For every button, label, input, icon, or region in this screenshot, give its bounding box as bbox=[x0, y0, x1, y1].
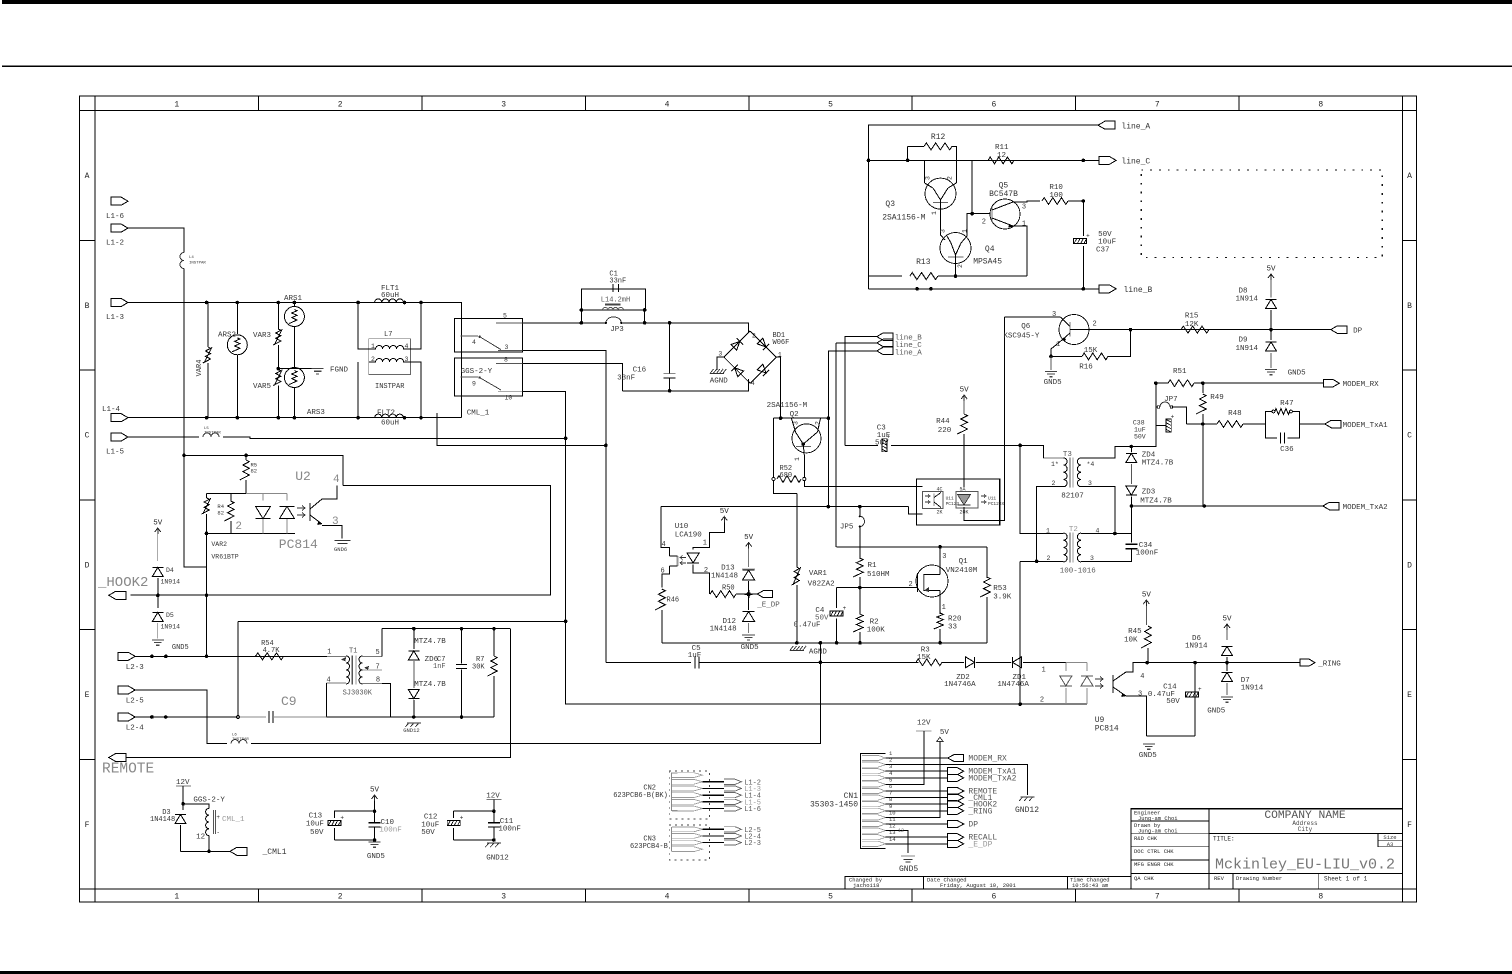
svg-text:3: 3 bbox=[942, 553, 946, 561]
zener ZD2 1N4746A bbox=[965, 657, 974, 668]
wire Q2 collector node up to line_A bbox=[828, 351, 876, 418]
relay K2 switch arm bbox=[480, 378, 501, 390]
svg-text:2: 2 bbox=[338, 101, 343, 110]
svg-text:VAR3: VAR3 bbox=[253, 332, 272, 340]
svg-text:L2-5: L2-5 bbox=[126, 698, 145, 706]
svg-text:3: 3 bbox=[1022, 204, 1026, 212]
svg-text:DP: DP bbox=[1353, 328, 1363, 336]
svg-text:100nF: 100nF bbox=[498, 826, 521, 834]
connector CN2 623PCB6-B(BK) bbox=[669, 771, 709, 819]
wire Q5 collector to R10 bbox=[1013, 201, 1040, 202]
connector L1-3 bbox=[111, 299, 128, 307]
ground GND5 C10 bbox=[369, 841, 381, 843]
resistor R16 15K bbox=[1082, 353, 1108, 360]
wire relay pin10 down bbox=[523, 392, 1088, 705]
connector L2-3 bbox=[118, 652, 135, 660]
svg-text:50V: 50V bbox=[1134, 434, 1146, 441]
svg-text:VAR4: VAR4 bbox=[196, 360, 204, 377]
wire ring node bottom bbox=[1146, 735, 1195, 737]
svg-text:3: 3 bbox=[332, 516, 339, 528]
svg-text:KSC945-Y: KSC945-Y bbox=[1003, 333, 1040, 341]
svg-text:R50: R50 bbox=[722, 585, 735, 593]
svg-text:3: 3 bbox=[505, 344, 509, 351]
junction E_DP node bbox=[746, 592, 750, 596]
svg-text:L1-5: L1-5 bbox=[106, 449, 125, 457]
svg-text:FLT2: FLT2 bbox=[377, 410, 395, 418]
wire TxA1 row to ZD4 bbox=[1131, 426, 1156, 447]
svg-text:5: 5 bbox=[503, 313, 507, 320]
svg-text:D13: D13 bbox=[721, 565, 735, 573]
svg-text:1: 1 bbox=[1042, 667, 1046, 675]
transistor Q3 2SA1156-M bbox=[925, 178, 956, 209]
U10 photosensor bar bbox=[676, 556, 678, 566]
svg-text:1N914: 1N914 bbox=[161, 624, 181, 631]
svg-text:C36: C36 bbox=[1280, 446, 1294, 454]
svg-text:50V: 50V bbox=[1166, 698, 1180, 706]
svg-text:C: C bbox=[1407, 432, 1412, 441]
changed-by row bbox=[845, 876, 1131, 889]
capacitor C4 0.47uF 50V bbox=[830, 611, 843, 616]
svg-text:5A: 5A bbox=[960, 487, 966, 493]
svg-text:INSTPAR: INSTPAR bbox=[232, 738, 249, 742]
svg-text:15K: 15K bbox=[1084, 347, 1098, 355]
svg-text:+: + bbox=[843, 605, 847, 612]
svg-text:REMOTE: REMOTE bbox=[102, 762, 154, 778]
svg-text:12: 12 bbox=[898, 828, 904, 834]
wire T1 pin4 down to C9 row bbox=[326, 683, 328, 717]
wire L1-3 rail bbox=[128, 303, 462, 418]
header rule bbox=[2, 66, 1512, 67]
svg-text:_E_DP: _E_DP bbox=[967, 840, 992, 849]
opto U9 transistor bbox=[1112, 675, 1114, 693]
svg-text:+: + bbox=[1171, 414, 1175, 421]
zener ZD3 MTZ4.7B bbox=[1126, 486, 1137, 495]
relay K1 switch arm bbox=[480, 337, 501, 350]
svg-text:1nF: 1nF bbox=[433, 663, 446, 671]
wire L2-3 bbox=[135, 655, 327, 657]
varistor VAR2 bbox=[206, 493, 208, 498]
svg-text:1: 1 bbox=[794, 457, 801, 461]
svg-text:D9: D9 bbox=[1239, 337, 1248, 345]
svg-text:L1-2: L1-2 bbox=[106, 240, 124, 248]
resistor R1 510HM bbox=[853, 558, 863, 577]
wire MODEM_RX row bbox=[1156, 382, 1168, 384]
svg-text:30K: 30K bbox=[472, 664, 485, 672]
svg-text:4: 4 bbox=[751, 380, 755, 387]
wire R51 node down to JP7 bbox=[1155, 383, 1157, 407]
svg-text:L1-3: L1-3 bbox=[106, 314, 125, 322]
resistor R11 12 bbox=[988, 157, 1014, 164]
svg-text:T1: T1 bbox=[349, 648, 357, 656]
svg-text:R11: R11 bbox=[995, 144, 1009, 152]
svg-text:GND6: GND6 bbox=[334, 546, 347, 553]
diode D3 1N4148 bbox=[182, 804, 184, 810]
svg-text:GND5: GND5 bbox=[899, 865, 918, 874]
relay K1 pin 5 bbox=[496, 322, 523, 324]
svg-text:C13: C13 bbox=[309, 813, 323, 821]
svg-text:C16: C16 bbox=[633, 367, 647, 375]
wire CN1 pin1 MODEM_RX bbox=[886, 757, 948, 759]
svg-text:GND5: GND5 bbox=[1288, 370, 1307, 378]
svg-text:MPSA45: MPSA45 bbox=[973, 258, 1002, 267]
resistor R52 680 bbox=[772, 477, 775, 480]
svg-text:1N914: 1N914 bbox=[1236, 296, 1259, 304]
wire line_C drop to rail bbox=[835, 343, 837, 547]
arrester ARS3 bbox=[284, 368, 304, 388]
svg-text:ARS2: ARS2 bbox=[218, 332, 236, 340]
wire gate row bbox=[837, 587, 918, 589]
wire T1 pin8 down bbox=[382, 684, 391, 717]
wire T1 pin5 up to rail bbox=[381, 629, 383, 657]
svg-text:5V: 5V bbox=[1222, 616, 1232, 624]
svg-text:MFG ENGR CHK: MFG ENGR CHK bbox=[1134, 861, 1174, 868]
mosfet Q1 VN2410M bbox=[916, 565, 948, 597]
resistor R54 4.7K bbox=[256, 653, 284, 660]
wire VAR3-VAR5 to FGND bbox=[278, 368, 313, 370]
svg-text:MTZ4.7B: MTZ4.7B bbox=[414, 681, 446, 689]
svg-text:Jung-am Choi: Jung-am Choi bbox=[1138, 828, 1178, 835]
svg-text:5V: 5V bbox=[1142, 592, 1152, 600]
svg-text:2: 2 bbox=[1093, 321, 1097, 329]
connector L1-5 bbox=[111, 433, 128, 441]
svg-text:10: 10 bbox=[505, 395, 513, 402]
svg-text:_CML1: _CML1 bbox=[262, 848, 287, 857]
wire Q2 emitter bbox=[803, 444, 804, 477]
wire bridge pin3 to AGND bbox=[717, 357, 724, 370]
svg-text:C: C bbox=[85, 432, 90, 441]
rail drain 5V row bbox=[837, 546, 987, 548]
svg-text:1: 1 bbox=[931, 211, 938, 215]
svg-text:2SA1156-M: 2SA1156-M bbox=[767, 402, 808, 410]
ground FGND bbox=[312, 368, 324, 370]
relay K2 pin 10 bbox=[498, 391, 523, 393]
capacitor C11 100nF bbox=[493, 800, 495, 823]
svg-text:INSTPAR: INSTPAR bbox=[189, 262, 206, 266]
resistor R53 3.9K bbox=[986, 547, 988, 578]
svg-text:MODEM_TxA1: MODEM_TxA1 bbox=[1343, 422, 1389, 430]
svg-text:33: 33 bbox=[948, 624, 958, 632]
resistor R7 30K bbox=[493, 629, 495, 656]
wire T2 pin2 row bbox=[1020, 560, 1063, 562]
svg-text:VAR1: VAR1 bbox=[809, 570, 828, 578]
wire relay pin3 to down vertical bbox=[523, 351, 606, 663]
wire L6 to right bbox=[251, 643, 820, 744]
connector MODEM_TxA1 CN1 bbox=[948, 768, 964, 775]
svg-text:R49: R49 bbox=[1210, 394, 1224, 402]
svg-text:B: B bbox=[1407, 302, 1412, 311]
svg-text:R10: R10 bbox=[1049, 184, 1063, 192]
svg-text:_RING: _RING bbox=[967, 807, 992, 816]
connector _E_DP bbox=[749, 593, 757, 595]
svg-text:5V: 5V bbox=[960, 387, 970, 395]
optocoupler U11 outer box bbox=[917, 479, 1000, 525]
svg-text:INSTPAR: INSTPAR bbox=[375, 383, 405, 391]
drawing frame border bbox=[80, 96, 1417, 902]
wire ring row left bbox=[606, 661, 691, 663]
connector L2-4 bbox=[118, 713, 135, 721]
svg-text:Sheet 1 of 1: Sheet 1 of 1 bbox=[1324, 876, 1368, 883]
wire L1 box to main wire bbox=[580, 310, 582, 323]
title box bbox=[1209, 872, 1403, 874]
svg-text:L2-3: L2-3 bbox=[126, 664, 145, 672]
varistor VAR4 bbox=[207, 303, 209, 348]
svg-text:VN2410M: VN2410M bbox=[946, 567, 978, 575]
resistor R20 33 bbox=[934, 613, 944, 629]
ground AGND center bbox=[790, 650, 804, 652]
U2 feedback rectangle bbox=[130, 486, 550, 595]
connector _HOOK2 bbox=[109, 591, 126, 599]
wire Q6 pin3 bbox=[1005, 316, 1061, 318]
svg-text:7: 7 bbox=[1155, 893, 1160, 902]
wire CN1 pin8 bbox=[886, 803, 948, 805]
capacitor C34 100nF bbox=[1130, 506, 1132, 542]
wire Q4 collector to Q5 base bbox=[967, 214, 990, 236]
wire MODEM_TxA2 row bbox=[1132, 505, 1323, 507]
wire U11 emitter jog bbox=[908, 507, 922, 514]
wire FLT2 to CML vertical bbox=[405, 417, 462, 419]
svg-text:-: - bbox=[216, 829, 220, 836]
svg-text:LCA190: LCA190 bbox=[675, 532, 703, 540]
connector line_B top bbox=[1099, 285, 1116, 293]
svg-text:1: 1 bbox=[942, 604, 946, 612]
svg-text:2: 2 bbox=[235, 521, 242, 533]
wire line_C row bbox=[869, 159, 1100, 161]
svg-text:GND5: GND5 bbox=[1207, 708, 1226, 716]
svg-text:AGND: AGND bbox=[809, 649, 828, 657]
transistor Q6 KSC945-Y bbox=[1059, 315, 1089, 345]
svg-text:100nF: 100nF bbox=[379, 827, 402, 835]
svg-text:8: 8 bbox=[504, 357, 508, 364]
svg-text:U11: U11 bbox=[946, 496, 954, 502]
svg-text:SJ3030K: SJ3030K bbox=[343, 690, 373, 698]
svg-text:1N4148: 1N4148 bbox=[150, 816, 175, 824]
wire L7 frame bbox=[358, 303, 369, 350]
svg-text:GND12: GND12 bbox=[403, 727, 420, 734]
svg-text:_HOOK2: _HOOK2 bbox=[97, 575, 148, 591]
svg-text:623PCB4-B: 623PCB4-B bbox=[630, 843, 668, 851]
wire CN1 pin11 bbox=[886, 823, 948, 825]
connector line_A mid bbox=[877, 347, 893, 355]
inductor L4 INSTPAR bbox=[180, 253, 184, 269]
svg-text:3: 3 bbox=[501, 893, 506, 902]
RC network R47 C36 bbox=[1265, 410, 1299, 440]
wire Q2 base down to R52 bbox=[773, 418, 775, 477]
svg-text:82107: 82107 bbox=[1061, 493, 1084, 501]
connector _E_DP CN1 bbox=[948, 840, 964, 847]
transistor Q4 MPSA45 bbox=[940, 233, 971, 264]
svg-text:R20: R20 bbox=[948, 616, 962, 624]
svg-text:_E_DP: _E_DP bbox=[756, 602, 780, 610]
svg-text:VR61BTP: VR61BTP bbox=[211, 554, 238, 561]
svg-text:2: 2 bbox=[752, 333, 756, 340]
inductor L6 INSTPAR bbox=[231, 740, 247, 744]
svg-text:PC123X: PC123X bbox=[988, 501, 1005, 507]
svg-text:line_A: line_A bbox=[1121, 123, 1150, 132]
svg-text:L7: L7 bbox=[384, 331, 392, 339]
svg-text:R15: R15 bbox=[1185, 313, 1199, 321]
wire 12V to pin5 bbox=[886, 731, 925, 784]
opto U10 LED bbox=[687, 553, 699, 563]
svg-text:1N4148: 1N4148 bbox=[710, 626, 737, 634]
svg-text:6: 6 bbox=[661, 568, 665, 576]
svg-text:GND5: GND5 bbox=[367, 853, 386, 861]
svg-text:12K: 12K bbox=[1185, 321, 1199, 329]
svg-text:MODEM_TxA2: MODEM_TxA2 bbox=[1343, 504, 1388, 512]
svg-text:L14.2mH: L14.2mH bbox=[601, 297, 630, 305]
svg-text:12V: 12V bbox=[917, 720, 931, 728]
connector L1-6 bbox=[111, 197, 128, 205]
connector DP mid bbox=[1331, 326, 1347, 334]
svg-text:5: 5 bbox=[828, 893, 833, 902]
wire line_B drop bbox=[845, 337, 877, 446]
svg-text:F: F bbox=[1407, 821, 1412, 830]
svg-text:3: 3 bbox=[1088, 480, 1092, 487]
svg-text:MODEM_RX: MODEM_RX bbox=[1343, 381, 1380, 389]
svg-text:A: A bbox=[85, 172, 90, 181]
varistor VAR3 bbox=[277, 303, 279, 330]
svg-text:ZD4: ZD4 bbox=[1142, 452, 1156, 460]
U9 pin 4 wire bbox=[1126, 663, 1147, 672]
svg-text:1N914: 1N914 bbox=[161, 579, 181, 586]
svg-text:10:56:43 am: 10:56:43 am bbox=[1072, 882, 1109, 889]
connector RECALL CN1 bbox=[948, 834, 964, 841]
svg-text:60uH: 60uH bbox=[381, 292, 399, 300]
svg-text:R46: R46 bbox=[667, 597, 680, 605]
svg-text:0.47uF: 0.47uF bbox=[794, 622, 821, 630]
svg-text:+: + bbox=[340, 815, 344, 822]
svg-text:GGS-2-Y: GGS-2-Y bbox=[461, 368, 493, 376]
svg-text:GND12: GND12 bbox=[1015, 806, 1039, 815]
svg-text:R48: R48 bbox=[1228, 410, 1242, 418]
wire T3 pin2 to T2 pin2 bbox=[1037, 487, 1064, 562]
resistor R5 82 bbox=[245, 456, 247, 460]
svg-text:680: 680 bbox=[780, 472, 793, 480]
bridge rectifier BD1 W06F bbox=[724, 331, 750, 357]
relay switch K2 box GGS-2-Y bbox=[455, 358, 523, 396]
svg-text:4.7K: 4.7K bbox=[263, 647, 281, 655]
wire CN1 pin9 bbox=[886, 810, 948, 812]
connector MODEM_TxA2 CN1 bbox=[948, 774, 964, 781]
svg-text:U2: U2 bbox=[295, 469, 311, 484]
svg-text:L4: L4 bbox=[189, 256, 194, 260]
svg-text:5V: 5V bbox=[153, 520, 163, 528]
svg-text:5V: 5V bbox=[940, 729, 950, 737]
svg-text:60uH: 60uH bbox=[381, 420, 399, 428]
wire Q6 emitter to R16 bbox=[1051, 343, 1059, 357]
capacitor C7 1nF bbox=[461, 629, 463, 664]
connector REMOTE CN1 bbox=[948, 788, 964, 795]
svg-text:ARS3: ARS3 bbox=[307, 409, 326, 417]
svg-text:PC814: PC814 bbox=[279, 537, 318, 552]
wire _RING row bbox=[1147, 662, 1300, 664]
svg-text:GND5: GND5 bbox=[741, 644, 760, 652]
svg-text:3: 3 bbox=[718, 350, 722, 357]
wire T2 pin1 bbox=[1020, 445, 1063, 533]
connector MODEM_RX bbox=[1323, 379, 1339, 387]
ground GND5 D9 bbox=[1265, 369, 1277, 371]
CN3 wires to L2 flags bbox=[703, 828, 725, 830]
diode D6 1N914 bbox=[1222, 646, 1233, 655]
wire Q5 emitter down to R13 row bbox=[1013, 226, 1027, 276]
wire VAR2 node down to L2-3 bbox=[206, 567, 208, 656]
svg-text:4: 4 bbox=[1140, 673, 1144, 681]
svg-text:2: 2 bbox=[704, 567, 708, 575]
svg-text:W06F: W06F bbox=[773, 339, 790, 347]
svg-text:33nF: 33nF bbox=[617, 375, 635, 383]
ground GND5 CN1 bbox=[901, 855, 915, 857]
svg-text:82: 82 bbox=[217, 510, 224, 517]
wire U2 input bottom rail bbox=[184, 533, 207, 567]
svg-text:R45: R45 bbox=[1128, 628, 1142, 636]
resistor R51 bbox=[1168, 380, 1194, 387]
svg-text:10uF: 10uF bbox=[306, 821, 324, 829]
U10 pin 2 to D13 R50 node bbox=[693, 565, 709, 595]
diode D5 1N914 bbox=[157, 595, 159, 608]
svg-text:GND5: GND5 bbox=[1139, 752, 1158, 760]
wire Q2 node down to JP5 row bbox=[827, 418, 829, 506]
svg-text:1N4746A: 1N4746A bbox=[944, 681, 976, 689]
svg-text:PC123: PC123 bbox=[946, 501, 960, 507]
wire CN1 pin2 GND12 bbox=[886, 765, 1028, 795]
svg-text:4: 4 bbox=[665, 101, 670, 110]
inductor L5 INSTPAR bbox=[203, 433, 219, 437]
svg-text:R16: R16 bbox=[1079, 364, 1093, 372]
wire U11 LED cathode to Q6 base bbox=[964, 317, 1005, 520]
svg-text:4: 4 bbox=[405, 343, 409, 350]
svg-text:+: + bbox=[216, 814, 220, 821]
svg-text:1: 1 bbox=[371, 343, 375, 350]
wire CN1 pin6 bbox=[886, 790, 948, 792]
wire line_C stub bbox=[836, 342, 877, 344]
svg-text:*4: *4 bbox=[1087, 461, 1095, 468]
connector L2-5 bbox=[118, 686, 135, 694]
connector _CML1 CN1 bbox=[948, 794, 964, 801]
wire relay pin8 to C16 bbox=[523, 363, 623, 391]
connector CN1 35303-1450 body bbox=[861, 754, 886, 849]
wire C12 C11 bottom bbox=[454, 839, 494, 841]
svg-text:R53: R53 bbox=[993, 585, 1007, 593]
svg-text:DP: DP bbox=[968, 821, 978, 830]
svg-text:line_B: line_B bbox=[1124, 286, 1153, 295]
svg-text:10K: 10K bbox=[1124, 637, 1138, 645]
wire T3 pin3 to T2 pin4 bbox=[1081, 487, 1115, 534]
wire Q2 top bbox=[774, 417, 829, 419]
svg-text:82: 82 bbox=[251, 468, 258, 475]
relay K1 pin 4 bbox=[461, 335, 478, 337]
opto U2 LED pair bbox=[262, 493, 264, 500]
svg-text:D: D bbox=[85, 561, 90, 570]
diode D7 1N914 bbox=[1226, 663, 1228, 671]
svg-text:R2: R2 bbox=[870, 619, 879, 627]
ground AGND bridge bbox=[710, 373, 724, 375]
ground GND5 below D5 bbox=[152, 639, 164, 641]
opto U2 arrows bbox=[297, 506, 305, 511]
svg-text:U10: U10 bbox=[675, 523, 689, 531]
wire L2-5 to L6 bbox=[135, 690, 227, 744]
wire L1-2 to vertical bbox=[128, 228, 184, 252]
svg-text:JP5: JP5 bbox=[840, 524, 854, 532]
svg-text:E: E bbox=[85, 691, 90, 700]
svg-text:4: 4 bbox=[472, 339, 476, 346]
wire line_A row top bbox=[869, 125, 1099, 289]
svg-text:BC547B: BC547B bbox=[989, 190, 1018, 199]
wire CN1 pin12 GND5 bbox=[886, 831, 908, 853]
dashed annotation box bbox=[1141, 170, 1382, 258]
svg-text:QA CHK: QA CHK bbox=[1134, 875, 1155, 882]
svg-text:V82ZA2: V82ZA2 bbox=[808, 581, 835, 589]
svg-text:L6: L6 bbox=[232, 734, 237, 738]
wire CN1 pin13 RECALL bbox=[886, 836, 948, 838]
